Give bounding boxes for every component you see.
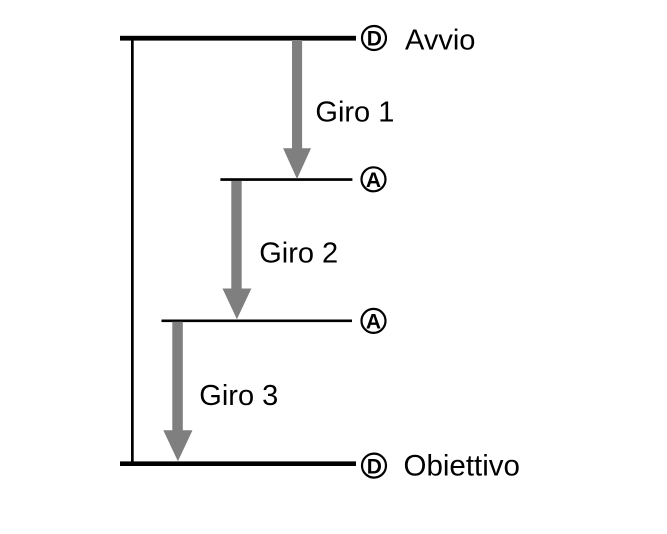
svg-text:A: A xyxy=(366,311,381,334)
svg-text:D: D xyxy=(367,28,382,51)
svg-text:A: A xyxy=(366,169,381,192)
svg-text:Obiettivo: Obiettivo xyxy=(404,449,520,482)
svg-text:Giro 1: Giro 1 xyxy=(315,96,394,128)
svg-text:D: D xyxy=(367,455,382,478)
svg-text:Giro 3: Giro 3 xyxy=(199,380,278,412)
svg-text:Avvio: Avvio xyxy=(405,24,475,56)
svg-text:Giro 2: Giro 2 xyxy=(259,238,338,270)
